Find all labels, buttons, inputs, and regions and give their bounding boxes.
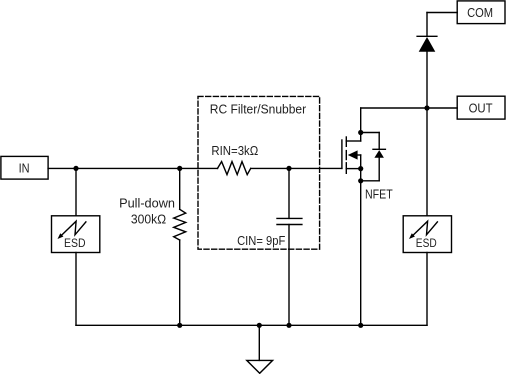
node RIN/CIN junction <box>286 166 291 171</box>
terminal box COM <box>457 1 505 24</box>
channel segment top <box>345 137 347 146</box>
svg-text:RC Filter/Snubber: RC Filter/Snubber <box>210 102 307 117</box>
svg-text:RIN=3kΩ: RIN=3kΩ <box>211 143 258 158</box>
wire column C upper (to CIN capacitor) <box>288 168 290 218</box>
node body diode bottom junction <box>358 178 363 183</box>
capacitor CIN=9pF <box>277 217 302 219</box>
ESD cell right box <box>403 216 451 253</box>
body arrow <box>348 150 358 159</box>
wire NFET source column (source down to ground rail) <box>360 169 362 326</box>
svg-text:IN: IN <box>19 162 30 176</box>
wire COM row <box>427 12 457 14</box>
wire column B upper (to pull-down resistor) <box>179 168 181 209</box>
terminal box OUT <box>457 96 505 119</box>
node pull-down junction <box>177 166 182 171</box>
svg-text:ESD: ESD <box>64 238 86 250</box>
resistor RIN=3kOhm <box>218 162 251 175</box>
svg-text:ESD: ESD <box>416 238 437 250</box>
node rail ground junction <box>257 323 262 328</box>
wire ground rail <box>76 324 427 326</box>
channel segment bottom <box>345 163 347 174</box>
RC Filter/Snubber dashed box <box>198 96 320 249</box>
node IN/ESD junction <box>73 166 78 171</box>
diode NFET body diode <box>361 133 386 181</box>
node NFET drain junction <box>358 130 363 135</box>
ESD cell right bolt <box>409 221 437 239</box>
resistor Pull-down 300kOhm <box>174 209 186 240</box>
node junction dots <box>73 105 429 328</box>
node OUT junction <box>424 105 429 110</box>
wire column C lower (CIN capacitor to ground rail) <box>288 225 290 326</box>
wire main row RIN to gate <box>251 167 342 169</box>
ESD cell left bolt <box>58 221 86 239</box>
node NFET source junction <box>358 166 363 171</box>
svg-text:Pull-down: Pull-down <box>119 195 175 210</box>
node rail pull-down junction <box>177 323 182 328</box>
ESD cell left box <box>52 216 100 253</box>
wire column E bottom (right ESD box to ground rail) <box>426 253 428 326</box>
node rail CIN junction <box>286 323 291 328</box>
node rail NFET junction <box>358 323 363 328</box>
wire drain column (OUT row down to NFET drain) <box>360 108 362 141</box>
wire column A upper (IN junction down to left ESD box) <box>75 168 77 215</box>
wire column B lower (pull-down resistor to ground rail) <box>179 240 181 325</box>
gate bar <box>341 140 343 168</box>
svg-text:NFET: NFET <box>365 186 393 201</box>
wire main input row IN to RIN <box>48 167 217 169</box>
svg-text:COM: COM <box>467 6 493 20</box>
wire OUT row (drain to OUT box) <box>361 107 458 109</box>
transistor NFET Q1 <box>342 137 361 173</box>
wire column E top (COM row to diode) <box>426 13 428 37</box>
svg-text:300kΩ: 300kΩ <box>131 211 167 226</box>
svg-text:CIN= 9pF: CIN= 9pF <box>237 233 285 248</box>
channel segment middle <box>345 151 347 160</box>
svg-text:OUT: OUT <box>469 102 493 116</box>
wire column A lower (left ESD box to ground rail) <box>75 253 77 326</box>
drain connect <box>346 140 360 142</box>
diode D1 to COM <box>417 36 437 52</box>
terminal box IN <box>1 156 48 179</box>
wire column E mid (diode to OUT junction and down to right ESD box) <box>426 52 428 216</box>
wire ground stem <box>258 325 260 360</box>
ground symbol <box>247 360 273 373</box>
source connect <box>346 168 360 170</box>
